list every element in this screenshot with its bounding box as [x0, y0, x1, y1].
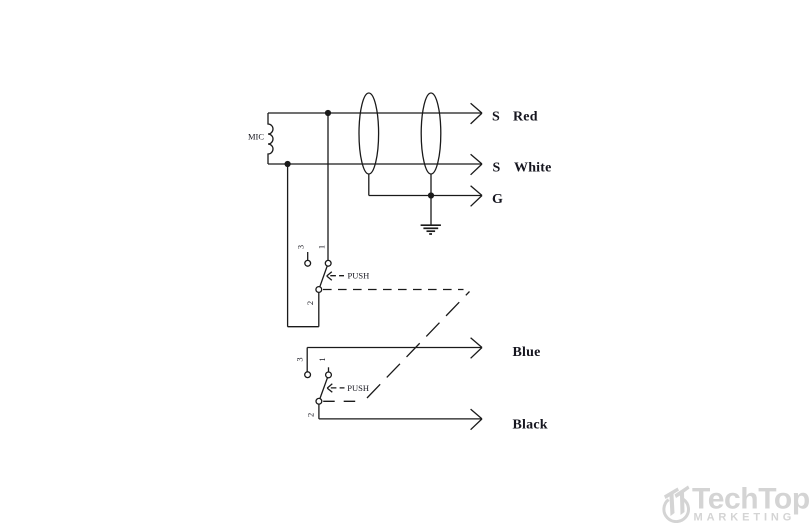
switch SW1 terminal 3 [305, 260, 311, 266]
wire Blue drop to SW2 terminal 3 [306, 348, 308, 372]
PUSH arrow SW2 [331, 387, 345, 389]
switch SW2 common terminal 2 [316, 398, 322, 404]
svg-text:Black: Black [513, 417, 548, 432]
TechTop Marketing watermark logo [664, 483, 810, 523]
switch SW1 common terminal 2 [316, 287, 322, 293]
arrow G [471, 186, 482, 207]
node junction dot on top wire [325, 110, 331, 116]
switch SW2 terminal 1 stub [328, 367, 330, 372]
dashed diagonal linkage between switches [367, 292, 470, 399]
switch SW1 arm [320, 266, 327, 287]
wire from top node down to switch1 terminal 1 [327, 113, 329, 260]
arrow S White [471, 154, 482, 175]
wire switch1 terminal2 drop [318, 292, 320, 326]
svg-text:Blue: Blue [513, 345, 541, 360]
node junction dot on G wire [428, 192, 434, 198]
wire Black line [319, 418, 482, 420]
cable shield ellipse 2 [421, 93, 441, 174]
svg-text:S: S [492, 110, 500, 125]
dashed linkage line SW1 [323, 289, 464, 291]
switch SW2 terminal 3 [305, 372, 311, 378]
ground symbol [421, 196, 441, 235]
arrow S Red [471, 103, 482, 124]
svg-text:1: 1 [317, 357, 327, 361]
wire G line [369, 195, 482, 197]
wire top (S Red line) [268, 112, 482, 114]
svg-text:MIC: MIC [248, 132, 264, 142]
svg-text:MARKETING: MARKETING [694, 512, 796, 523]
switch SW2 arm [320, 378, 328, 399]
node junction dot on bottom mic wire [285, 161, 291, 167]
dashed stub SW2 [323, 400, 361, 402]
svg-text:3: 3 [295, 245, 305, 249]
svg-text:2: 2 [306, 413, 316, 417]
PUSH arrow SW1 [330, 275, 344, 277]
wire bottom of mic (S White line) [268, 163, 482, 165]
arrow Blue [471, 338, 482, 359]
arrow Black [471, 409, 482, 430]
svg-text:PUSH: PUSH [348, 271, 370, 281]
svg-text:G: G [492, 192, 503, 207]
svg-text:1: 1 [317, 245, 327, 249]
watermark flame T right [675, 486, 690, 516]
switch SW1 terminal 3 stub [307, 252, 309, 260]
svg-text:White: White [514, 161, 552, 176]
wire from bottom mic node down left side [287, 164, 289, 327]
wire Blue line [307, 347, 482, 349]
svg-text:S: S [493, 161, 501, 176]
svg-text:Red: Red [513, 110, 538, 125]
wire shield1 drop [368, 174, 370, 196]
watermark flame T left [664, 488, 679, 517]
microphone MIC coil [268, 113, 273, 164]
svg-text:3: 3 [294, 357, 304, 361]
wire switch1 bottom horizontal [288, 326, 319, 328]
cable shield ellipse 1 [359, 93, 379, 174]
switch SW1 terminal 1 [325, 260, 331, 266]
watermark ring [664, 499, 689, 521]
svg-text:2: 2 [305, 301, 315, 305]
switch SW2 terminal 1 [326, 372, 332, 378]
svg-text:PUSH: PUSH [347, 383, 369, 393]
wire shield2 drop [430, 174, 432, 196]
wire SW2 terminal2 drop [318, 404, 320, 419]
